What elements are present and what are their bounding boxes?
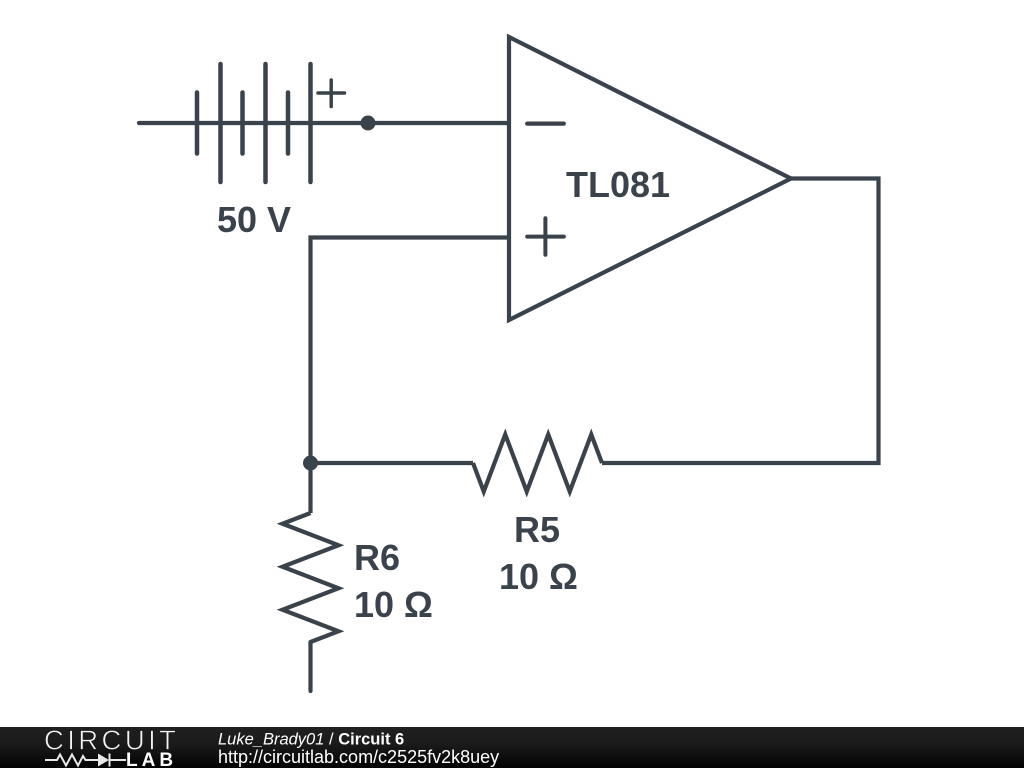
svg-text:Luke_Brady01 / Circuit 6: Luke_Brady01 / Circuit 6 [218, 731, 404, 749]
footer logo resistor-diode glyph [45, 754, 126, 767]
resistor R5 zigzag [473, 435, 602, 492]
svg-text:50 V: 50 V [217, 199, 291, 240]
wire battery left lead and through to op-amp minus input [139, 121, 509, 125]
wire op-amp output to right then down to feedback row [602, 179, 879, 464]
op-amp plus input marker [527, 218, 564, 255]
svg-text:10 Ω: 10 Ω [499, 556, 578, 597]
svg-text:R5: R5 [514, 509, 560, 550]
svg-text:TL081: TL081 [566, 164, 670, 205]
wire node down to R6 [308, 463, 312, 513]
battery V1 50V plates [197, 64, 311, 182]
svg-text:http://circuitlab.com/c2525fv2: http://circuitlab.com/c2525fv2k8uey [218, 747, 499, 767]
wire R6 bottom open lead [308, 642, 312, 691]
junction node dot at feedback node [303, 456, 318, 471]
svg-text:10 Ω: 10 Ω [354, 584, 433, 625]
svg-text:R6: R6 [354, 537, 400, 578]
op-amp minus input marker [527, 121, 564, 125]
svg-text:LAB: LAB [126, 750, 177, 768]
battery plus polarity mark [318, 80, 345, 107]
resistor R6 zigzag [283, 513, 339, 642]
node junction dot on minus input net [361, 116, 376, 131]
op-amp U1 triangle body [509, 37, 791, 320]
wire op-amp plus input to feedback node [311, 238, 510, 464]
footer bar background [0, 727, 1024, 768]
wire feedback node to R5 [311, 461, 474, 465]
